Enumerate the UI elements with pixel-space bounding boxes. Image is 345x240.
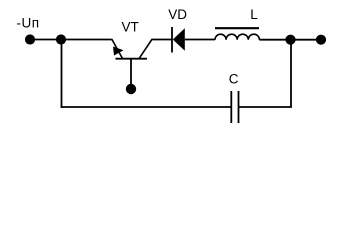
svg-text:VT: VT	[122, 20, 139, 35]
wire: left vertical from junction down to bottom rail	[61, 40, 63, 108]
svg-text:L: L	[250, 7, 258, 22]
inductor L core bar	[215, 27, 259, 29]
terminal: input -Uп	[25, 34, 35, 44]
wire: top rail from input terminal to transistor emitter corner	[30, 39, 112, 41]
transistor VT collector lead (diagonal)	[139, 39, 152, 59]
capacitor C right plate	[238, 91, 240, 123]
svg-text:-Uп: -Uп	[17, 16, 40, 31]
wire: inductor to output junction and terminal	[259, 39, 321, 41]
svg-text:VD: VD	[168, 7, 187, 22]
transistor VT emitter lead (diagonal)	[112, 39, 123, 59]
wire: bottom rail right segment	[239, 106, 292, 108]
transistor VT base bar	[116, 58, 148, 60]
wire: collector to diode cathode	[152, 39, 173, 41]
wire: bottom rail left segment	[61, 106, 231, 108]
diode VD cathode bar	[171, 27, 173, 53]
terminal: output	[316, 35, 326, 45]
transistor VT emitter arrowhead	[113, 47, 124, 56]
wire: diode anode to inductor	[185, 39, 215, 41]
wire: right vertical from output junction down to bottom rail	[290, 40, 292, 107]
capacitor C left plate	[230, 91, 232, 123]
svg-text:C: C	[229, 71, 239, 86]
inductor L winding arcs	[215, 34, 259, 40]
transistor VT base lead wire	[130, 59, 132, 89]
node: input junction	[56, 34, 66, 44]
terminal: base control input dot	[126, 84, 136, 94]
node: output junction	[285, 35, 295, 45]
diode VD triangle	[173, 28, 185, 50]
